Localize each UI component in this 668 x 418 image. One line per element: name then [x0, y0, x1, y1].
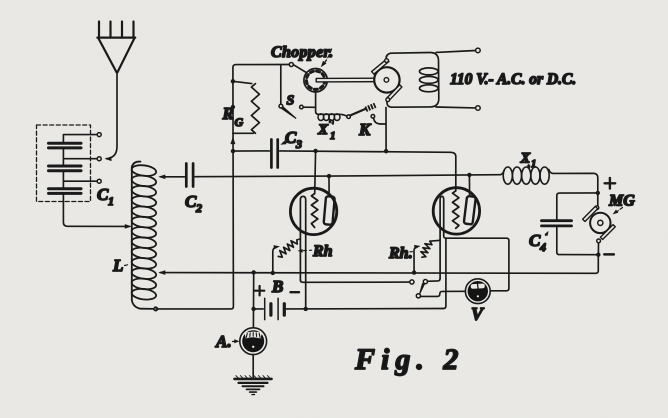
wire to chopper brush [293, 65, 306, 73]
svg-text:S: S [287, 94, 295, 109]
vacuum tube V2 [433, 188, 479, 234]
svg-text:Chopper.: Chopper. [271, 44, 333, 61]
ground [236, 376, 270, 379]
svg-text:Rh.: Rh. [388, 245, 413, 262]
wire A meter to ground [252, 355, 254, 378]
wire C4 branch [557, 193, 598, 219]
wire plate bus [195, 175, 501, 177]
wire B- riser [443, 238, 446, 308]
svg-text:R: R [222, 104, 234, 123]
rheostat Rh (left) [273, 247, 276, 273]
chopper wheel (interrupter disc) [304, 69, 327, 92]
svg-text:110 V.- A.C. or D.C.: 110 V.- A.C. or D.C. [450, 71, 576, 88]
svg-text:1: 1 [531, 159, 536, 170]
capacitor C1 (bank in dashed box) [37, 125, 91, 202]
svg-text:K: K [358, 120, 372, 139]
filament of V1 [300, 196, 305, 309]
wire B- bus [286, 308, 444, 310]
node terminal top [476, 48, 481, 53]
MG brush bottom-right [600, 225, 615, 240]
switch (filament circuit) [410, 280, 414, 284]
voltmeter V [465, 279, 490, 304]
label + B - [255, 286, 264, 295]
coil turns of field winding [420, 68, 439, 75]
grid of V2 [453, 191, 459, 228]
wire K / 110V riser to grid bus [385, 107, 387, 149]
wire left riser (coil bottom to RG/chopper) [156, 65, 289, 309]
wire antenna lead down to C1 selector [107, 72, 118, 158]
wire grid lead V1 [314, 151, 317, 194]
switch K [347, 115, 351, 119]
capacitor C2 [160, 176, 184, 178]
wire C4 bottom to minus node [557, 227, 596, 254]
filament of V2 [440, 196, 444, 278]
wire minus node to MG brush [597, 243, 599, 253]
svg-text:X: X [520, 151, 531, 167]
inductor X1 [501, 167, 554, 184]
svg-text:V: V [471, 304, 485, 324]
plate of V1 [324, 196, 335, 225]
plate of V2 [464, 196, 476, 225]
motor armature [374, 67, 399, 92]
rheostat Rh (right) [414, 247, 417, 273]
inductor X'1 [316, 92, 347, 116]
wire grid bus [233, 150, 270, 152]
svg-text:Rh: Rh [312, 243, 333, 260]
svg-text:Fig. 2: Fig. 2 [354, 343, 464, 376]
svg-text:B: B [271, 277, 283, 296]
node contact points of C1 [97, 133, 101, 137]
plate lead V1 [328, 176, 330, 196]
wire C1 bottom to coil L [63, 193, 129, 226]
svg-text:3: 3 [295, 137, 302, 151]
svg-text:1: 1 [330, 130, 336, 142]
antenna [97, 22, 135, 73]
vacuum tube V1 [290, 188, 336, 234]
motor brush bottom [387, 85, 402, 101]
chopper shaft [316, 78, 386, 82]
ammeter A [240, 328, 267, 355]
label + (MG) [605, 178, 616, 189]
wire V2 filament left leg to switch [427, 278, 440, 281]
wire battery/A-meter riser [252, 272, 254, 327]
svg-text:X: X [317, 122, 329, 138]
svg-text:′: ′ [329, 118, 332, 130]
inductor L (antenna coupling coil) [131, 162, 157, 309]
wire 110V bottom lead [436, 106, 476, 109]
svg-text:L: L [112, 256, 123, 275]
label minus (MG) [604, 253, 614, 256]
motor-generator MG [595, 206, 599, 210]
MG brush top-left [583, 206, 616, 239]
plate lead V2 [468, 175, 470, 196]
capacitor C3 [271, 140, 277, 168]
resistor RG [233, 81, 252, 83]
wire V2 filament right leg to V meter [444, 236, 509, 291]
svg-text:G: G [235, 115, 244, 129]
switch S [280, 65, 282, 104]
capacitor C4 [542, 221, 572, 226]
svg-text:4: 4 [539, 240, 546, 254]
wire X1 to MG + [553, 173, 598, 205]
wire 110V top lead [436, 51, 476, 53]
svg-text:2: 2 [195, 201, 202, 215]
battery B [254, 308, 264, 310]
svg-text:1: 1 [108, 194, 114, 208]
grid of V1 [311, 194, 317, 228]
wire switch blade to voltmeter [421, 291, 466, 296]
svg-text:A.: A. [215, 332, 232, 351]
motor brush top [372, 59, 402, 102]
node junctions on left riser [231, 79, 235, 83]
wire V1 filament left leg to switch [300, 280, 409, 282]
motor field coil housing [386, 52, 439, 107]
node terminal bottom [476, 106, 481, 111]
svg-text:MG: MG [608, 193, 635, 210]
wire bottom return bus [160, 257, 598, 274]
